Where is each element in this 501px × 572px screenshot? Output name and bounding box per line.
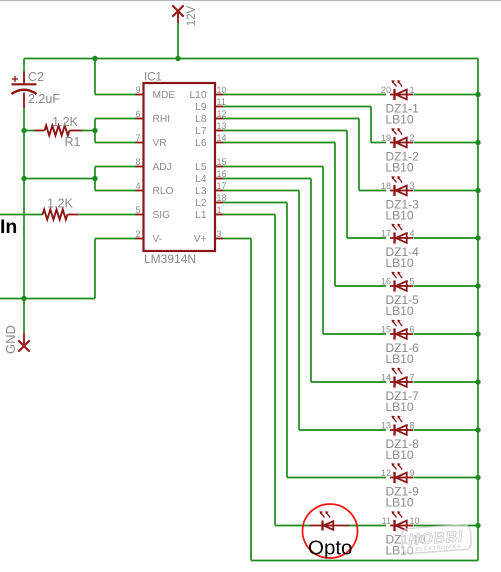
svg-text:15: 15 — [381, 325, 391, 335]
wire 12V drop — [177, 23, 179, 59]
svg-text:LB10: LB10 — [386, 400, 414, 414]
wire MDE vertical from top rail — [94, 59, 96, 95]
svg-text:7: 7 — [410, 373, 415, 383]
svg-text:20: 20 — [381, 85, 391, 95]
svg-text:12V: 12V — [186, 5, 198, 26]
junction ADJ left rail — [21, 176, 26, 181]
wire L2 vertical — [286, 203, 288, 478]
pin 6 RHI stub — [136, 118, 144, 120]
junction LED8 rail — [475, 427, 480, 432]
wire L7 horizontal — [223, 130, 347, 132]
svg-text:LB10: LB10 — [386, 209, 414, 223]
wire L4 horizontal — [223, 178, 311, 180]
wire L4 vertical — [310, 179, 312, 383]
svg-text:ADJ: ADJ — [153, 162, 172, 173]
watermark HOBBI Elektronika — [401, 524, 472, 554]
svg-text:14: 14 — [381, 373, 391, 383]
wire right +12V rail — [477, 59, 479, 561]
svg-text:L9: L9 — [195, 102, 207, 113]
wire MDE horizontal to pin 9 — [95, 94, 136, 96]
wire L7 to LED4 — [347, 237, 386, 239]
svg-text:15: 15 — [217, 157, 227, 167]
svg-text:RHI: RHI — [153, 114, 171, 125]
pin 9 MDE stub — [136, 94, 144, 96]
svg-text:13: 13 — [217, 121, 227, 131]
svg-text:L7: L7 — [195, 126, 207, 137]
wire pin8 ADJ — [95, 166, 136, 168]
pin stub GND supply — [23, 333, 25, 346]
annotation circle around Opto — [303, 504, 358, 558]
svg-text:9: 9 — [410, 468, 415, 478]
wire ADJ to left rail — [24, 178, 95, 180]
svg-text:RLO: RLO — [153, 186, 174, 197]
svg-text:L1: L1 — [195, 210, 207, 221]
svg-text:6: 6 — [410, 325, 415, 335]
LED DZ1-2 — [390, 142, 413, 144]
junction LED4 rail — [475, 235, 480, 240]
wire L8 to LED3 — [359, 190, 386, 192]
pin 4 RLO stub — [136, 190, 144, 192]
svg-text:C2: C2 — [28, 70, 44, 84]
svg-text:8: 8 — [135, 157, 140, 167]
wire LED2 anode to rail — [414, 142, 479, 144]
svg-text:14: 14 — [217, 133, 227, 143]
svg-text:5: 5 — [135, 205, 140, 215]
wire left rail mid — [23, 108, 25, 333]
wire L6 to LED5 — [335, 285, 386, 287]
LED DZ1-4 — [390, 237, 413, 239]
junction LED2 rail — [475, 140, 480, 145]
wire left rail upper — [23, 59, 25, 72]
wire L6 horizontal — [223, 142, 335, 144]
svg-text:16: 16 — [217, 169, 227, 179]
resistor R2 1.2K — [43, 210, 68, 220]
LED DZ1-8 — [390, 429, 413, 431]
pin 7 VR stub — [136, 142, 144, 144]
wire L3 to LED8 — [299, 429, 386, 431]
wire L9 horizontal — [223, 106, 371, 108]
wire pin6 RHI — [95, 118, 136, 120]
svg-text:3: 3 — [410, 181, 415, 191]
svg-text:L4: L4 — [195, 174, 207, 185]
svg-text:R1: R1 — [65, 135, 81, 149]
wire L3 vertical — [298, 191, 300, 431]
wire L1 vertical — [274, 215, 276, 526]
svg-text:GND: GND — [3, 325, 18, 354]
svg-text:8: 8 — [410, 421, 415, 431]
junction LED9 rail — [475, 475, 480, 480]
wire V+ vertical — [250, 239, 252, 561]
LED Opto — [310, 525, 350, 527]
capacitor C2 curved plate — [12, 90, 37, 94]
junction R1 left rail — [21, 128, 26, 133]
svg-text:2: 2 — [135, 229, 140, 239]
wire L1 to Opto — [275, 525, 310, 527]
svg-text:18: 18 — [217, 193, 227, 203]
LED DZ1-3 — [390, 190, 413, 192]
svg-text:1: 1 — [410, 85, 415, 95]
pin 14 L6 stub — [215, 142, 223, 144]
junction ADJ-RLO — [92, 176, 97, 181]
wire R1 left — [24, 130, 35, 132]
wire LED6 anode to rail — [414, 333, 479, 335]
wire RHI-VR vertical — [94, 119, 96, 143]
junction 12V on top rail — [175, 56, 180, 61]
LED DZ1-5 — [390, 285, 413, 287]
capacitor C2 positive plate — [12, 83, 37, 85]
svg-text:VR: VR — [153, 138, 167, 149]
border top edge — [0, 0, 501, 2]
svg-text:18: 18 — [381, 181, 391, 191]
pin 1 L1 stub — [215, 214, 223, 216]
ground GND symbol X — [19, 341, 29, 351]
svg-text:12: 12 — [217, 109, 227, 119]
svg-text:9: 9 — [135, 85, 140, 95]
junction LED10 rail — [475, 523, 480, 528]
wire L3 horizontal — [223, 190, 299, 192]
wire LED9 anode to rail — [414, 477, 479, 479]
svg-text:11: 11 — [217, 97, 226, 107]
svg-text:V-: V- — [153, 234, 163, 245]
wire L1 horizontal — [223, 214, 275, 216]
wire In input — [0, 214, 43, 216]
wire L5 horizontal — [223, 166, 323, 168]
LED DZ1-1 — [390, 94, 413, 96]
svg-text:19: 19 — [381, 133, 391, 143]
svg-text:LB10: LB10 — [386, 256, 414, 270]
svg-text:LB10: LB10 — [386, 352, 414, 366]
junction LED1 rail — [475, 92, 480, 97]
pin 8 ADJ stub — [136, 166, 144, 168]
wire LED3 anode to rail — [414, 190, 479, 192]
junction MDE on top rail — [92, 56, 97, 61]
wire LED4 anode to rail — [414, 237, 479, 239]
svg-text:SIG: SIG — [153, 210, 171, 221]
wire L2 to LED9 — [287, 477, 386, 479]
wire pin4 RLO — [95, 190, 136, 192]
svg-text:LM3914N: LM3914N — [144, 252, 196, 266]
svg-text:L5: L5 — [195, 162, 207, 173]
LED DZ1-7 — [390, 381, 413, 383]
svg-text:4: 4 — [410, 229, 415, 239]
junction LED6 rail — [475, 331, 480, 336]
svg-text:1: 1 — [217, 205, 222, 215]
wire top +12V rail — [24, 58, 478, 60]
junction LED3 rail — [475, 188, 480, 193]
pin 12 L8 stub — [215, 118, 223, 120]
svg-text:1.2K: 1.2K — [52, 115, 78, 129]
svg-text:5: 5 — [410, 277, 415, 287]
svg-text:In: In — [0, 216, 17, 238]
pin 18 L2 stub — [215, 202, 223, 204]
wire L5 to LED6 — [323, 333, 386, 335]
wire pin7 VR — [95, 142, 136, 144]
wire pin2 V- — [95, 238, 136, 240]
wire Opto to LED10 — [349, 525, 386, 527]
wire R1 right — [82, 130, 95, 132]
svg-text:12: 12 — [381, 468, 391, 478]
svg-text:13: 13 — [381, 421, 391, 431]
pin 17 L3 stub — [215, 190, 223, 192]
wire L8 vertical — [358, 119, 360, 191]
wire L8 horizontal — [223, 118, 359, 120]
junction LED7 rail — [475, 379, 480, 384]
svg-text:3: 3 — [217, 229, 222, 239]
wire L5 vertical — [322, 167, 324, 335]
pin 10 L10 stub — [215, 94, 223, 96]
svg-text:MDE: MDE — [153, 90, 176, 101]
svg-text:16: 16 — [381, 277, 391, 287]
svg-text:7: 7 — [135, 133, 140, 143]
svg-text:11: 11 — [382, 516, 391, 526]
wire L6 vertical — [334, 143, 336, 287]
pin 2 V- stub — [136, 238, 144, 240]
wire LED10 anode to rail — [414, 525, 479, 527]
wire V- to left edge — [0, 298, 95, 300]
svg-text:L3: L3 — [195, 186, 207, 197]
pin 3 V+ stub — [215, 238, 223, 240]
svg-text:LB10: LB10 — [386, 304, 414, 318]
svg-text:LB10: LB10 — [386, 161, 414, 175]
svg-text:1.2K: 1.2K — [47, 197, 73, 211]
op-amp IC1 LM3914N body — [144, 83, 216, 251]
svg-text:2.2uF: 2.2uF — [28, 92, 60, 106]
svg-text:L6: L6 — [195, 138, 207, 149]
wire V+ horizontal — [223, 238, 251, 240]
svg-text:2: 2 — [410, 133, 415, 143]
wire L9 to LED2 — [371, 142, 386, 144]
wire bottom V+ rail — [251, 560, 478, 562]
wire LED7 anode to rail — [414, 381, 479, 383]
wire L10 to LED1 — [223, 94, 386, 96]
wire L9 vertical — [370, 107, 372, 143]
pin 13 L7 stub — [215, 130, 223, 132]
wire V- vertical — [94, 239, 96, 299]
junction R1 right — [92, 128, 97, 133]
pin 15 L5 stub — [215, 166, 223, 168]
junction LED5 rail — [475, 283, 480, 288]
svg-text:L8: L8 — [195, 114, 207, 125]
wire R2 to pin5 SIG — [79, 214, 136, 216]
capacitor C2 top lead — [23, 72, 25, 84]
svg-text:L10: L10 — [190, 90, 207, 101]
svg-text:V+: V+ — [194, 234, 207, 245]
wire LED1 anode to rail — [414, 94, 479, 96]
supply +12V symbol X — [173, 6, 183, 16]
svg-text:17: 17 — [381, 229, 391, 239]
wire LED8 anode to rail — [414, 429, 479, 431]
svg-text:L2: L2 — [195, 198, 207, 209]
LED DZ1-9 — [390, 477, 413, 479]
wire LED5 anode to rail — [414, 285, 479, 287]
svg-text:10: 10 — [410, 516, 420, 526]
pin 5 SIG stub — [136, 214, 144, 216]
wire L4 to LED7 — [311, 381, 386, 383]
pin 16 L4 stub — [215, 178, 223, 180]
svg-text:4: 4 — [135, 181, 140, 191]
svg-text:LB10: LB10 — [386, 448, 414, 462]
LED DZ1-10 — [390, 525, 413, 527]
junction V- left rail — [21, 296, 26, 301]
capacitor C2 bottom lead — [23, 93, 25, 109]
svg-text:LB10: LB10 — [386, 496, 414, 510]
LED DZ1-6 — [390, 333, 413, 335]
svg-text:LB10: LB10 — [386, 113, 414, 127]
wire ADJ-RLO vertical — [94, 167, 96, 191]
svg-text:Opto: Opto — [308, 537, 352, 560]
resistor R1 — [45, 126, 70, 136]
wire L7 vertical — [346, 131, 348, 239]
wire L2 horizontal — [223, 202, 287, 204]
svg-text:6: 6 — [135, 109, 140, 119]
svg-text:10: 10 — [217, 85, 227, 95]
svg-text:IC1: IC1 — [144, 72, 162, 84]
pin stub 12V supply — [177, 12, 179, 23]
capacitor C2 plus sign — [12, 76, 18, 82]
pin 11 L9 stub — [215, 106, 223, 108]
svg-text:17: 17 — [217, 181, 227, 191]
